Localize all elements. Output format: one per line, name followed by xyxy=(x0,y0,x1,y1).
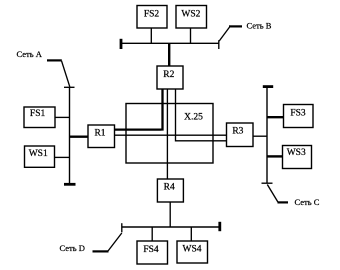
label lead Сеть A: callout stub xyxy=(47,59,62,61)
svg-text:Сеть D: Сеть D xyxy=(60,243,85,253)
box R2 xyxy=(157,66,183,89)
bus B right terminator xyxy=(218,40,220,49)
label lead Сеть D: diagonal xyxy=(108,233,122,251)
bus C top terminator xyxy=(263,85,273,88)
wire bus D to FS4 drop xyxy=(151,227,153,241)
wire R1 to R2 (thick L path) xyxy=(115,89,163,131)
bus B (network B horizontal segment) xyxy=(121,42,220,44)
svg-text:Сеть А: Сеть А xyxy=(17,49,43,59)
box FS1 xyxy=(24,107,55,128)
box R3 xyxy=(227,123,254,147)
svg-text:FS1: FS1 xyxy=(30,109,46,119)
bus D (network D horizontal segment) xyxy=(122,226,220,228)
box R1 xyxy=(88,125,115,148)
label lead Сеть B: diagonal xyxy=(219,27,229,41)
label lead Сеть C: diagonal xyxy=(267,185,278,203)
svg-text:R3: R3 xyxy=(232,127,243,137)
label lead Сеть B: callout stub xyxy=(229,25,242,27)
svg-text:R1: R1 xyxy=(94,129,105,139)
svg-text:Сеть C: Сеть C xyxy=(295,197,320,207)
svg-text:R4: R4 xyxy=(164,183,175,193)
bus B left terminator xyxy=(120,39,123,49)
wire R4 drop to bus D xyxy=(169,202,171,227)
cloud X.25 xyxy=(126,104,213,164)
wire WS2 drop to bus B xyxy=(190,28,192,43)
bus A (network A vertical segment) xyxy=(69,87,71,184)
wire R1 to R3 xyxy=(115,134,227,136)
label lead Сеть C: callout stub xyxy=(278,201,289,203)
wire FS2 drop to bus B xyxy=(150,28,152,43)
box R4 xyxy=(157,179,183,202)
bus C (network C vertical segment) xyxy=(266,87,268,184)
wire WS1 to bus A xyxy=(55,156,70,158)
box FS2 xyxy=(137,6,167,29)
box FS3 xyxy=(284,105,314,128)
svg-text:WS3: WS3 xyxy=(287,148,306,158)
wire FS1 to bus A xyxy=(55,116,70,118)
box WS1 xyxy=(25,146,55,167)
wire R3 to bus C xyxy=(253,135,267,137)
wire bus B to R2 (thick drop) xyxy=(168,43,170,66)
box WS4 xyxy=(177,241,208,263)
box WS2 xyxy=(176,6,207,29)
svg-text:Сеть В: Сеть В xyxy=(247,21,272,31)
bus C bottom terminator xyxy=(262,182,273,184)
svg-text:FS2: FS2 xyxy=(144,10,160,20)
svg-text:WS1: WS1 xyxy=(29,149,48,159)
wire bus C to FS3 (thick stub) xyxy=(267,116,284,118)
bus D left terminator xyxy=(121,223,123,232)
box WS3 xyxy=(283,146,312,169)
label lead Сеть D: callout stub xyxy=(93,250,109,252)
svg-text:FS4: FS4 xyxy=(143,245,159,255)
svg-text:WS2: WS2 xyxy=(181,9,200,19)
wire bus D to WS4 drop xyxy=(190,227,192,241)
bus A top terminator xyxy=(64,86,75,88)
wire bus C to WS3 (thick stub) xyxy=(267,155,283,157)
svg-text:R2: R2 xyxy=(163,70,174,80)
bus A bottom terminator xyxy=(64,183,76,186)
bus D right terminator xyxy=(218,222,221,231)
label lead Сеть A: diagonal xyxy=(62,61,70,87)
wire bus A to R1 (thick stub) xyxy=(70,135,89,137)
svg-text:FS3: FS3 xyxy=(290,109,306,119)
box FS4 xyxy=(137,241,168,264)
svg-text:WS4: WS4 xyxy=(183,244,202,254)
wire R2 to R4 xyxy=(166,89,168,179)
wire R2 to R3 (bend) xyxy=(176,89,227,141)
svg-text:X.25: X.25 xyxy=(184,112,203,122)
